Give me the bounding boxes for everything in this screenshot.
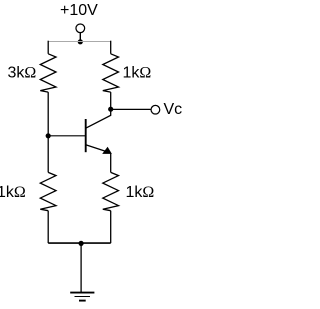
wire supply stem [79, 32, 81, 41]
wire emitter lead [110, 154, 112, 173]
node collector junction dot [108, 107, 113, 112]
transistor Q1 bar [85, 119, 87, 152]
wire Vc output [111, 108, 152, 110]
wire base [48, 135, 85, 137]
svg-text:+10V: +10V [60, 2, 98, 19]
svg-text:3kΩ: 3kΩ [8, 64, 37, 81]
transistor Q1 emitter with arrow [86, 145, 107, 152]
wire left top lead [47, 41, 49, 54]
wire bottom rail [48, 242, 110, 244]
junction supply dot [78, 39, 83, 44]
wire left bottom lead [47, 211, 49, 243]
node base junction dot [46, 133, 51, 138]
wire collector upper lead [110, 92, 112, 109]
wire right top lead [110, 41, 112, 54]
svg-text:1kΩ: 1kΩ [0, 184, 26, 201]
resistor R2 1k lower-left [40, 172, 56, 210]
ground [70, 293, 94, 301]
supply terminal circle [76, 24, 85, 33]
resistor R1 3k [40, 54, 56, 92]
svg-text:1kΩ: 1kΩ [126, 184, 155, 201]
wire left mid lead [47, 92, 49, 136]
junction ground dot [79, 241, 84, 246]
svg-text:1kΩ: 1kΩ [123, 64, 152, 81]
transistor Q1 collector lead [86, 109, 111, 128]
resistor R4 1k lower-right [103, 172, 119, 210]
resistor R3 1k top-right [103, 54, 119, 92]
wire right bottom lead [110, 211, 112, 243]
wire top rail [48, 41, 110, 43]
wire ground stem [80, 243, 82, 292]
svg-text:Vc: Vc [164, 101, 183, 118]
terminal Vc circle [151, 105, 160, 114]
wire left lower lead [47, 136, 49, 173]
